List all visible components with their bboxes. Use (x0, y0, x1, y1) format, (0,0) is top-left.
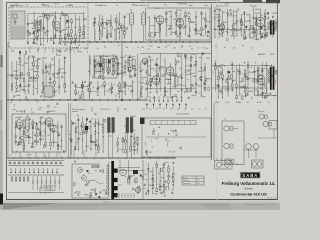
svg-text:0,25: 0,25 (214, 17, 218, 19)
tube V4 ECH81 mixer (175, 19, 184, 29)
svg-text:ECH81: ECH81 (176, 10, 182, 12)
detector lower label band (215, 45, 254, 49)
svg-text:5n: 5n (219, 77, 221, 79)
IF transformer Fi4 (26, 115, 29, 132)
top margin label row (15, 3, 230, 7)
left label row above tone box (10, 101, 59, 113)
dial lamp rail bottom (8, 165, 64, 167)
svg-text:220: 220 (147, 5, 150, 7)
tube V1 EC92 FM oscillator (34, 21, 41, 32)
speaker field labels (224, 110, 265, 121)
tube V3 EF89 IF amplifier (155, 16, 164, 26)
motor M1 tuning motor (120, 169, 126, 175)
svg-text:Continental 410 US: Continental 410 US (230, 191, 267, 196)
tone control box (12, 114, 66, 152)
junction dots on lower bus (13, 157, 173, 158)
svg-text:47: 47 (109, 26, 111, 28)
tuner wire drops (30, 46, 78, 53)
svg-text:30: 30 (224, 47, 226, 49)
tick-dot row above pushbutton box (146, 104, 186, 109)
AF transformer T1 core (108, 118, 115, 133)
svg-text:Sch. Nr. 4101: Sch. Nr. 4101 (267, 198, 277, 200)
svg-text:UKW: UKW (225, 4, 229, 6)
svg-text:47: 47 (156, 109, 158, 111)
feed wire node C (121, 42, 123, 100)
svg-text:0,5: 0,5 (189, 46, 192, 48)
parts above lamp rail (10, 150, 65, 158)
page number 4 (74, 160, 76, 164)
tick row under driver cluster (149, 96, 182, 102)
svg-text:1k: 1k (268, 102, 270, 104)
row3 column wires (69, 103, 71, 158)
label 2xEL84 (176, 113, 190, 116)
AM coil set L10 (28, 77, 37, 81)
svg-text:70: 70 (202, 36, 204, 38)
svg-text:10k: 10k (142, 109, 145, 111)
svg-text:25k: 25k (141, 47, 144, 49)
jack ticks (217, 158, 239, 166)
title small print (267, 198, 277, 200)
svg-text:1k: 1k (184, 109, 186, 111)
labels above tone box (16, 110, 55, 113)
power transformer primary wire (108, 162, 110, 198)
IF transformer Fi2 (142, 11, 146, 27)
legend table (182, 176, 204, 185)
tone control columns (15, 117, 63, 150)
svg-text:4,7: 4,7 (145, 72, 148, 74)
svg-text:50: 50 (117, 138, 119, 140)
bottom shadow band (0, 201, 280, 211)
cathode rail mid-left (140, 53, 211, 55)
sheet border frame (7, 3, 278, 200)
jack socket pair (246, 144, 259, 158)
top mid labels (95, 4, 187, 7)
label band right mid (215, 102, 270, 104)
left horizontal wire (7, 74, 25, 76)
output stage wire 3 (255, 95, 277, 97)
svg-text:15k: 15k (222, 12, 225, 14)
pushbutton unit box (142, 118, 211, 157)
pushbutton box parts (145, 127, 182, 154)
svg-text:12: 12 (33, 147, 35, 149)
speaker group box (222, 121, 244, 165)
output transformer core (270, 67, 275, 90)
output transformer primary coil (268, 69, 270, 83)
IF transformer Fi1 (130, 11, 134, 27)
svg-text:0,5: 0,5 (61, 73, 64, 75)
main bus anode rail (62, 41, 212, 43)
junction dots on mid bus (11, 99, 146, 100)
dial lamp rail top (8, 160, 64, 162)
svg-text:12: 12 (31, 56, 33, 58)
svg-text:50: 50 (78, 45, 80, 47)
svg-text:8µ: 8µ (242, 45, 244, 47)
output extra parts (213, 53, 276, 99)
svg-text:50: 50 (246, 79, 248, 81)
lower bus chassis rail (7, 157, 176, 159)
filter choke Dr1 (133, 170, 138, 174)
svg-text:0,1: 0,1 (126, 14, 129, 16)
svg-text:0,1: 0,1 (197, 48, 200, 50)
IF wire drops (95, 24, 180, 42)
svg-text:10,7MHz 460kHz: 10,7MHz 460kHz (132, 5, 146, 7)
svg-text:4,7: 4,7 (118, 45, 121, 47)
svg-text:410: 410 (197, 183, 200, 185)
svg-text:6,8: 6,8 (156, 85, 159, 87)
svg-text:25k: 25k (117, 68, 120, 70)
AF driver columns (139, 53, 206, 98)
svg-text:500: 500 (261, 70, 264, 72)
svg-text:78 33 45 16: 78 33 45 16 (100, 109, 110, 111)
ratio detector coil right (275, 22, 277, 29)
terminal tick row (10, 168, 57, 173)
tube V6 EABC80 demodulator (255, 17, 264, 29)
svg-text:EL95: EL95 (270, 54, 274, 56)
svg-text:3k: 3k (168, 81, 170, 83)
svg-text:0,02: 0,02 (86, 90, 90, 92)
AF top label row (72, 107, 127, 112)
svg-text:1k: 1k (205, 109, 207, 111)
fold line 2 (145, 0, 147, 203)
svg-text:2M: 2M (44, 131, 47, 133)
section divider wire (211, 4, 213, 160)
resistor bank R40-R44 (11, 177, 29, 181)
svg-text:0,02: 0,02 (149, 33, 153, 35)
svg-text:0,1: 0,1 (198, 109, 201, 111)
svg-text:0,02: 0,02 (197, 30, 201, 32)
svg-text:220: 220 (205, 48, 208, 50)
svg-text:10k: 10k (121, 30, 124, 32)
svg-text:0,1: 0,1 (64, 45, 67, 47)
FM tuning capacitor C1 (29, 32, 35, 36)
svg-text:8µ: 8µ (215, 46, 217, 48)
svg-text:2n: 2n (137, 47, 139, 49)
svg-text:25k: 25k (125, 47, 128, 49)
small tube V9 stabiliser (141, 58, 147, 66)
tube V12 ECC83 preamp (44, 118, 53, 128)
ratio detector can core (270, 20, 275, 34)
svg-text:10k: 10k (237, 9, 240, 11)
coupling can (175, 76, 178, 86)
tube V10 EL84 output (256, 75, 265, 86)
driver lower label band (141, 45, 208, 50)
below-frame caption (246, 203, 277, 206)
svg-text:6,8: 6,8 (14, 83, 17, 85)
mains input loop (72, 164, 108, 198)
svg-text:70: 70 (202, 48, 204, 50)
driver section box (146, 8, 211, 40)
dense label cluster at bus start (64, 45, 80, 53)
phono jack box (215, 161, 233, 170)
speaker LS1 (224, 126, 238, 131)
mid bus AGC rail (7, 99, 148, 101)
svg-text:3k: 3k (109, 71, 111, 73)
svg-text:Phonoausgleich: Phonoausgleich (72, 109, 85, 111)
svg-text:25k: 25k (34, 135, 37, 137)
label row above tuner (10, 4, 72, 7)
black component blob (85, 126, 88, 130)
tuner coil L2 (62, 14, 68, 16)
svg-text:EM84: EM84 (236, 102, 241, 104)
svg-text:0,1: 0,1 (86, 3, 89, 5)
psu label (103, 200, 111, 203)
driver mid rail (146, 88, 196, 90)
speaker LS2 (224, 143, 233, 148)
svg-text:50: 50 (23, 151, 25, 153)
schematic sheet (3, 0, 280, 203)
title line Freiburg Vollautomatic 14 (222, 181, 276, 186)
svg-text:Hochton: Hochton (258, 110, 265, 113)
svg-text:5n: 5n (80, 51, 82, 53)
primary coil arcs (107, 165, 109, 194)
svg-text:0,1: 0,1 (149, 109, 152, 111)
svg-text:25k: 25k (103, 28, 106, 30)
svg-text:5n: 5n (92, 119, 94, 121)
svg-text:70: 70 (142, 79, 144, 81)
svg-text:5n: 5n (71, 23, 73, 25)
IF strip columns (147, 10, 210, 40)
feed wire node D (90, 54, 138, 100)
svg-text:-Stereo-: -Stereo- (244, 187, 254, 191)
svg-text:EM84: EM84 (182, 4, 187, 6)
switch wafer shaded (44, 86, 53, 97)
svg-text:220V: 220V (215, 102, 220, 104)
FM demod columns (88, 54, 137, 79)
svg-text:3k: 3k (181, 45, 183, 47)
svg-text:25k: 25k (105, 62, 108, 64)
detector labels (216, 5, 258, 8)
svg-text:5n: 5n (163, 109, 165, 111)
svg-text:0,5: 0,5 (216, 85, 219, 87)
svg-text:EABC80: EABC80 (258, 53, 265, 56)
dial lamp row La1-La12 (9, 162, 62, 164)
terminal rails (8, 175, 64, 193)
output stage wire 1 (212, 65, 270, 67)
tuner coil L1 (44, 14, 50, 16)
svg-text:70: 70 (244, 12, 246, 14)
fold line 1 (216, 0, 218, 203)
output stage wire 2 (212, 87, 268, 89)
left edge mark 1 (1, 55, 3, 67)
svg-text:Ratio: Ratio (204, 4, 208, 7)
svg-text:5n: 5n (114, 84, 116, 86)
capacitor bank C40-C46 (32, 176, 60, 190)
driver extra parts (139, 53, 211, 100)
svg-text:6,8: 6,8 (158, 184, 161, 186)
title line Stereo (244, 187, 254, 191)
svg-text:EF89: EF89 (155, 8, 160, 10)
svg-text:ZF-Verstärker: ZF-Verstärker (95, 4, 107, 7)
svg-text:Freiburg Vollautomatic 14.: Freiburg Vollautomatic 14. (222, 181, 276, 186)
FM tuner box outline (9, 7, 88, 48)
left margin wire (7, 42, 9, 158)
svg-text:Reg.: Reg. (189, 5, 193, 7)
label row above pushbutton box (142, 109, 207, 111)
svg-text:25k: 25k (233, 47, 236, 49)
bottom-left black bar (0, 194, 3, 205)
bottom-left text block (40, 186, 57, 195)
svg-text:30: 30 (191, 49, 193, 51)
svg-text:0,02: 0,02 (24, 132, 28, 134)
svg-text:47: 47 (170, 109, 172, 111)
svg-text:abgeschaltet: abgeschaltet (43, 191, 53, 194)
svg-text:0,02: 0,02 (149, 46, 153, 48)
svg-text:12: 12 (199, 93, 201, 95)
speaker wiring (214, 103, 277, 160)
fuse Si1 (92, 165, 99, 168)
svg-text:3k: 3k (21, 112, 23, 114)
svg-text:Regelspannung: Regelspannung (216, 6, 229, 8)
SABA logo text (242, 173, 258, 178)
svg-text:1n: 1n (124, 61, 126, 63)
indicator area columns (146, 161, 174, 195)
output transformer secondary coil (275, 70, 277, 74)
svg-text:60: 60 (27, 91, 29, 93)
svg-text:1M: 1M (170, 177, 173, 179)
tube V2 EC92 FM mixer (53, 21, 60, 32)
AF amplifier columns right (117, 133, 139, 154)
junction node A (74, 99, 123, 101)
svg-text:100: 100 (85, 48, 88, 50)
svg-text:25k: 25k (186, 66, 189, 68)
svg-text:EL84: EL84 (54, 3, 58, 5)
svg-text:15k: 15k (19, 86, 22, 88)
svg-text:10k: 10k (187, 71, 190, 73)
svg-text:50: 50 (75, 33, 77, 35)
title line Continental 410 US (230, 191, 267, 196)
svg-text:50: 50 (132, 82, 134, 84)
transformer lead wires (109, 131, 132, 158)
svg-text:M8: M8 (124, 109, 127, 111)
svg-text:25k: 25k (64, 51, 67, 53)
svg-text:3k: 3k (165, 47, 167, 49)
tube V11 EABC80 tone stage (15, 119, 22, 130)
electrolytic C90 (128, 178, 130, 183)
AF transformer T2 core (126, 118, 133, 133)
svg-text:50: 50 (92, 87, 94, 89)
feed wire node B (70, 42, 72, 100)
svg-text:Tast.: Tast. (25, 4, 29, 7)
wave band switch columns (11, 53, 67, 100)
svg-text:Freiburg Vollautomatic 14 -Ste: Freiburg Vollautomatic 14 -Stereo- (246, 203, 277, 206)
svg-text:3k: 3k (135, 142, 137, 144)
psu vertical wires (120, 160, 143, 199)
tube V7 EL84 driver (151, 76, 160, 86)
heater supply wires (118, 168, 145, 171)
svg-text:Tast.: Tast. (164, 4, 168, 7)
demod block box (94, 56, 117, 78)
junction dots on top bus (74, 41, 197, 42)
tuner trimmer block (13, 14, 17, 25)
left edge mark 2 (1, 100, 2, 120)
tuner shield shaded area (11, 11, 25, 39)
svg-text:14: 14 (197, 180, 199, 182)
top edge smudge (140, 0, 280, 3)
svg-text:4,7: 4,7 (167, 45, 170, 47)
psu tick row (116, 193, 134, 198)
power transformer core (111, 161, 114, 199)
svg-text:EABC80: EABC80 (48, 110, 55, 113)
left edge shade (0, 0, 3, 210)
crossover box (269, 121, 277, 130)
svg-text:5n: 5n (181, 74, 183, 76)
pushbutton strip (150, 121, 196, 125)
svg-text:EL84: EL84 (257, 102, 261, 104)
svg-text:50: 50 (37, 101, 39, 103)
svg-text:0,5: 0,5 (260, 89, 262, 91)
IF transformer Fi3 (128, 55, 132, 73)
antenna terminal (11, 5, 14, 10)
tweeter LS4 (259, 114, 268, 119)
secondary winding taps (114, 169, 118, 198)
SABA logo black box (241, 172, 261, 178)
svg-text:25k: 25k (20, 77, 23, 79)
parts row below tuner box (12, 49, 88, 56)
ratio detector coil left (268, 22, 270, 29)
IF strip labels (130, 8, 182, 12)
dark corner blob (140, 118, 145, 125)
svg-text:50: 50 (80, 170, 82, 172)
svg-text:3k: 3k (157, 58, 159, 60)
tube V8 EABC80 triode section (165, 67, 174, 77)
svg-text:12: 12 (129, 86, 131, 88)
tone box wire drops (20, 151, 57, 158)
AF amplifier columns (69, 113, 139, 158)
svg-text:1n: 1n (102, 183, 104, 185)
tube V13 EZ81 rectifier (134, 187, 140, 194)
svg-text:4,7: 4,7 (251, 48, 254, 50)
detector rail (213, 29, 270, 31)
svg-text:0,5: 0,5 (108, 89, 111, 91)
paper background (0, 0, 280, 210)
top-right detector columns (214, 6, 267, 40)
svg-text:1n: 1n (56, 128, 58, 130)
svg-text:2×EL84 (6BQ5): 2×EL84 (6BQ5) (176, 113, 190, 116)
mid lower columns (72, 80, 135, 99)
tape jack box (252, 160, 264, 168)
svg-text:1M: 1M (263, 37, 266, 39)
psu right parts (118, 174, 147, 190)
svg-text:ECC85: ECC85 (72, 48, 78, 50)
svg-text:Ratio: Ratio (41, 3, 45, 6)
AM aerial columns (93, 12, 128, 40)
svg-text:10k: 10k (173, 19, 176, 21)
output stage columns (215, 60, 268, 99)
speaker LS3 (225, 159, 234, 164)
svg-text:M: M (122, 173, 124, 175)
electrolytic C91 (135, 178, 137, 183)
svg-text:1n: 1n (148, 49, 150, 51)
svg-text:5k: 5k (116, 5, 118, 7)
svg-text:5n: 5n (171, 190, 173, 192)
svg-text:Ratiodet.: Ratiodet. (250, 5, 258, 8)
tweeter LS5 (263, 121, 272, 126)
svg-text:2n: 2n (177, 109, 179, 111)
tube V5 AM oscillator triode (218, 24, 225, 32)
tuner interior columns (27, 11, 87, 46)
svg-text:0,5: 0,5 (78, 138, 81, 140)
svg-text:EL84: EL84 (69, 5, 73, 7)
svg-text:0,1: 0,1 (191, 109, 194, 111)
svg-text:Netztrafo: Netztrafo (103, 200, 111, 203)
svg-text:2n: 2n (52, 64, 54, 66)
label band under top bus (65, 45, 204, 51)
svg-text:1M: 1M (149, 185, 152, 187)
pushbutton inner wire (146, 136, 206, 138)
rectifier area parts (74, 169, 107, 198)
top-right extra parts (214, 7, 277, 41)
svg-text:5k: 5k (97, 48, 99, 50)
